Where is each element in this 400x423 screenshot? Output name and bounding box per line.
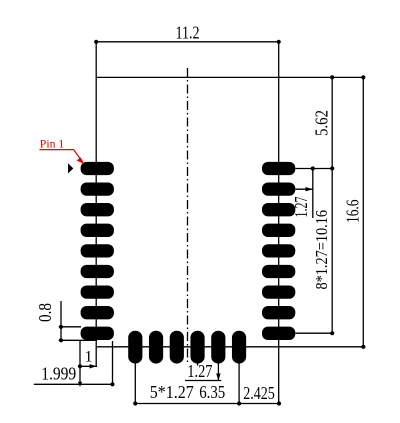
wire bottom row centerline extension <box>97 346 366 348</box>
node dot 0.8 top <box>59 325 63 329</box>
arrow 1 dimension <box>90 364 97 368</box>
svg-text:1.999: 1.999 <box>41 364 76 384</box>
arrow pin 1 leader red <box>77 157 85 164</box>
wire dimension line 1.999 horizontal <box>34 383 113 385</box>
svg-text:16.6: 16.6 <box>343 200 363 224</box>
arrow 1.27 bottom dimension <box>216 374 220 381</box>
wire bottom pad A center extension down <box>134 363 136 404</box>
wire bottom pad E center extension down <box>217 363 219 381</box>
svg-text:5.62: 5.62 <box>312 110 332 136</box>
pad row bottom pads <box>128 331 246 364</box>
svg-text:8*1.27=10.16: 8*1.27=10.16 <box>312 210 331 290</box>
svg-text:2.425: 2.425 <box>243 383 275 403</box>
pad column right pads <box>262 162 295 340</box>
pin 1 leader red <box>40 150 83 162</box>
wire dimension line 0.8 vertical <box>60 301 62 340</box>
arrow 1.999 extension end <box>78 382 82 387</box>
node dot 11.2 right <box>277 40 281 44</box>
wire dimension line 11.2 <box>96 41 279 43</box>
wire pad2 center extension <box>295 188 312 190</box>
svg-text:Pin 1: Pin 1 <box>40 139 65 151</box>
wire pad9 top extension left <box>59 326 81 328</box>
node dot 1.27 top <box>311 166 315 170</box>
wire bottom pad D center extension down <box>197 363 199 366</box>
wire dimension line 5*1.27 6.35 2.425 bottom <box>135 403 279 405</box>
svg-text:1.27: 1.27 <box>187 361 212 381</box>
node dot 11.2 left <box>94 40 98 44</box>
wire dimension line 1.27 right vertical <box>312 169 314 219</box>
wire pad9 center extension right <box>295 332 332 334</box>
wire bottom pad F center extension down <box>238 363 240 404</box>
wire right column extension line <box>278 42 280 404</box>
svg-text:5*1.27: 5*1.27 <box>150 382 194 402</box>
node dot 1 left <box>78 364 82 368</box>
wire dimension line 1 horizontal <box>80 365 97 367</box>
wire dimension line 5.62 and 8x1.27 vertical <box>331 77 333 333</box>
wire pad9 right edge extension down <box>112 341 114 384</box>
wire dimension line 1.27 bottom <box>185 380 221 382</box>
node dot 5.62 bottom <box>330 166 334 170</box>
wire pad9 bottom extension left <box>59 339 97 341</box>
wire pad9 left edge extension down <box>79 341 81 384</box>
node dot 16.6 bottom <box>361 345 365 349</box>
pad column left pads 1-9 <box>81 162 114 340</box>
svg-text:0.8: 0.8 <box>35 303 55 322</box>
wire vertical centerline dash-dot <box>187 68 189 363</box>
svg-text:1.27: 1.27 <box>291 197 311 218</box>
node dot 1.999 right <box>110 382 114 386</box>
node dot 2.425 right <box>277 401 281 405</box>
wire dimension line 16.6 vertical <box>362 77 364 346</box>
node dot 5*1.27 left <box>133 401 137 405</box>
svg-text:11.2: 11.2 <box>176 23 200 43</box>
node dot 6.35 right <box>237 401 241 405</box>
pin 1 marker triangle <box>68 163 73 173</box>
svg-text:6.35: 6.35 <box>199 382 225 402</box>
node dot 0.8 bottom <box>59 338 63 342</box>
node dot 5.62 top <box>330 75 334 79</box>
wire top body reference line <box>96 76 364 78</box>
svg-text:1: 1 <box>85 348 93 365</box>
wire left column extension line <box>95 42 97 367</box>
wire pad1 center extension <box>295 168 332 170</box>
arrow 1.27 right dimension <box>306 187 313 191</box>
node dot 8x1.27 bottom <box>330 331 334 335</box>
node dot 16.6 top <box>361 75 365 79</box>
